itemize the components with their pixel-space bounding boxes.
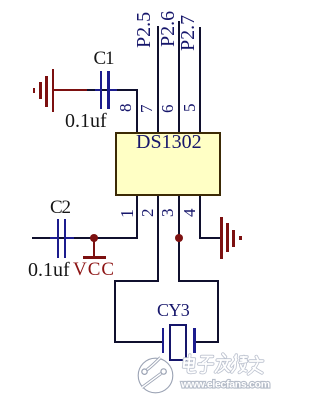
wire crystal loop right horizontal [178, 280, 219, 282]
pin number 5 [181, 104, 198, 113]
capacitor C1 [95, 89, 101, 91]
junction VCC node dot [90, 234, 98, 242]
label DS1302 [136, 131, 202, 154]
crystal CY3 plates [162, 328, 165, 353]
label 0.1uf (C1) [65, 110, 107, 133]
wire P2.5 net vertical to pin 7 [157, 26, 159, 133]
pin number 2 [139, 208, 156, 217]
node P2.6 label [158, 11, 178, 47]
label CY3 [157, 300, 189, 321]
junction pin 3 node dot [175, 234, 183, 242]
wire P2.6 net vertical to pin 6 [178, 21, 180, 133]
wire crystal loop right vertical [217, 280, 219, 343]
wire crystal right lead [194, 341, 219, 343]
wire C2 horizontal [32, 237, 94, 239]
watermark glyphs (stylized) [183, 354, 264, 374]
pin number 3 [159, 208, 176, 217]
wire pin 1 horizontal to VCC junction [94, 237, 138, 239]
label VCC [73, 259, 115, 281]
ground symbol right (maroon bars) [220, 217, 223, 259]
label 0.1uf (C2) [28, 259, 70, 282]
wire pin 4 horizontal to ground [200, 237, 222, 239]
ground symbol left (power GND, maroon bars) [33, 88, 36, 93]
op chip U? DS1302 body [115, 132, 221, 196]
wire pin 1 vertical [136, 196, 138, 239]
pin number 4 [181, 208, 198, 217]
wire pin 8 vertical [136, 89, 138, 133]
wire pin 2 vertical [157, 196, 159, 282]
pin number 1 [118, 209, 136, 218]
label C1 [94, 48, 114, 70]
wire pin 4 vertical [199, 196, 201, 239]
label C2 [50, 197, 70, 219]
wire crystal loop left horizontal [114, 280, 159, 282]
svg-text:www.elecfans.com: www.elecfans.com [180, 379, 270, 391]
pin number 8 [117, 104, 134, 113]
pin number 7 [138, 104, 155, 113]
wire P2.7 net vertical to pin 5 [199, 27, 201, 133]
wire crystal loop left vertical [114, 280, 116, 343]
capacitor C2 [50, 237, 57, 239]
pin number 6 [159, 104, 176, 113]
wire pin 3 vertical [178, 196, 180, 282]
wire C1 to pin 8 horizontal [87, 89, 137, 91]
wire crystal left lead [114, 341, 163, 343]
node P2.7 label [178, 14, 198, 50]
wire ground stub to C1 (maroon) [52, 89, 88, 91]
node P2.5 label [134, 12, 154, 48]
crystal CY3 body rectangle [169, 324, 187, 361]
power VCC symbol (bar) [93, 239, 95, 257]
